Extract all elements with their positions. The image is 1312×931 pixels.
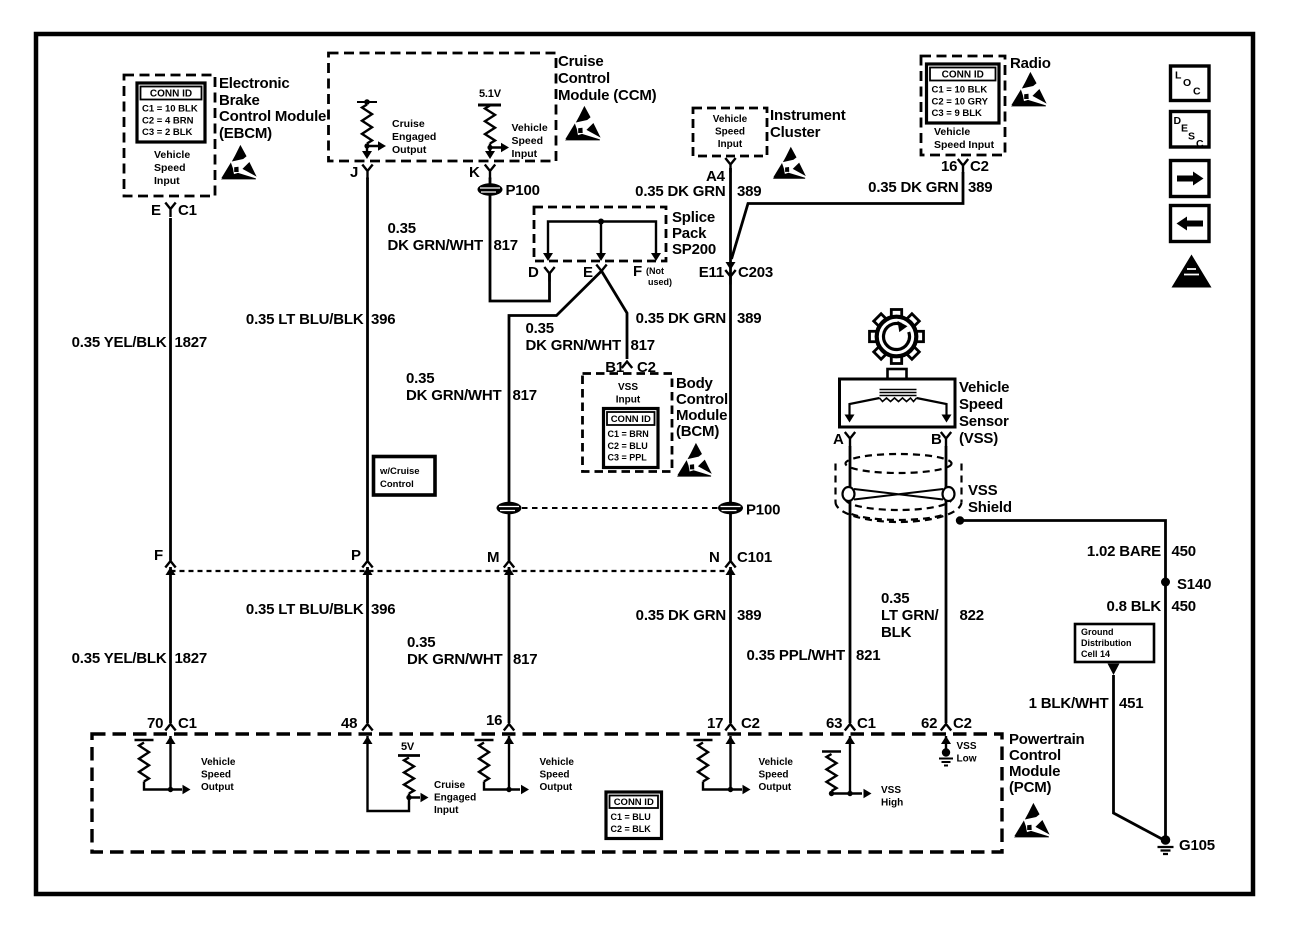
- svg-text:C: C: [1196, 138, 1204, 150]
- EBCM CONN ID table: [137, 83, 205, 142]
- label Cruise Engaged Input: [434, 780, 476, 816]
- shield drain junction: [956, 516, 964, 524]
- svg-text:Input: Input: [616, 395, 641, 406]
- svg-text:Speed: Speed: [959, 396, 1003, 413]
- svg-text:Control: Control: [1009, 747, 1061, 764]
- VSS shield dashed cylinder: [836, 454, 962, 522]
- svg-text:Output: Output: [540, 782, 573, 793]
- terminal P (C101): [351, 547, 373, 575]
- label 0.35 DK GRN 389 (below C203): [636, 310, 762, 327]
- svg-text:DK GRN/WHT: DK GRN/WHT: [388, 237, 484, 254]
- Ground Distribution Cell 14 box: [1075, 624, 1154, 662]
- svg-text:Body: Body: [676, 375, 714, 392]
- ground distribution pointer: [1108, 664, 1120, 676]
- svg-text:DK GRN/WHT: DK GRN/WHT: [526, 337, 622, 354]
- svg-text:(EBCM): (EBCM): [219, 125, 272, 142]
- BCM title: [676, 375, 728, 440]
- terminal F (C101): [154, 547, 176, 575]
- svg-text:C1: C1: [178, 715, 197, 732]
- svg-text:F: F: [633, 263, 642, 280]
- svg-text:450: 450: [1172, 543, 1196, 560]
- wire 817 splice E to M branch: [509, 271, 602, 561]
- connector row C101 dashed line: [171, 570, 731, 572]
- svg-text:P100: P100: [506, 182, 540, 199]
- svg-text:P100: P100: [746, 502, 780, 519]
- svg-text:C2: C2: [741, 715, 760, 732]
- svg-text:0.8 BLK: 0.8 BLK: [1107, 598, 1162, 615]
- svg-text:F: F: [154, 547, 163, 564]
- svg-text:C1 = 10 BLK: C1 = 10 BLK: [932, 85, 988, 96]
- label 0.35 PPL/WHT 821: [747, 647, 881, 664]
- svg-text:Input: Input: [154, 175, 180, 187]
- svg-text:1827: 1827: [175, 650, 208, 667]
- pin B (VSS): [931, 431, 951, 448]
- svg-text:C2 = BLK: C2 = BLK: [611, 824, 652, 834]
- svg-text:817: 817: [513, 387, 537, 404]
- BCM pin function label: [616, 382, 641, 406]
- label Vehicle Speed Input (CCM): [512, 122, 548, 160]
- svg-text:Input: Input: [434, 805, 459, 816]
- svg-text:450: 450: [1172, 598, 1196, 615]
- svg-text:389: 389: [737, 607, 761, 624]
- svg-text:E: E: [583, 264, 593, 281]
- pin 62 C2 (PCM): [921, 715, 972, 744]
- wire CCM cruise output branch: [362, 141, 386, 159]
- svg-text:0.35: 0.35: [407, 634, 435, 651]
- svg-text:389: 389: [737, 310, 761, 327]
- svg-text:E: E: [151, 202, 161, 219]
- svg-text:Speed: Speed: [715, 127, 745, 138]
- pin B1 C2 (BCM): [605, 359, 656, 376]
- svg-text:Control Module: Control Module: [219, 108, 326, 125]
- label Vehicle Speed Output 1: [201, 757, 236, 793]
- svg-text:16: 16: [486, 712, 502, 729]
- svg-text:0.35 DK GRN: 0.35 DK GRN: [636, 310, 726, 327]
- svg-text:Input: Input: [512, 148, 538, 160]
- Instrument Cluster title: [770, 107, 846, 141]
- svg-text:O: O: [1183, 77, 1191, 89]
- svg-text:C2: C2: [970, 158, 989, 175]
- svg-text:0.35 LT BLU/BLK: 0.35 LT BLU/BLK: [246, 601, 364, 618]
- svg-text:389: 389: [737, 183, 761, 200]
- wire 1827 EBCM E to C101 F: [169, 218, 172, 561]
- wire PCM cruise engaged input: [368, 736, 429, 811]
- svg-text:J: J: [350, 164, 358, 181]
- svg-text:Vehicle: Vehicle: [512, 122, 548, 134]
- svg-text:SP200: SP200: [672, 241, 716, 258]
- wire 389 IC A4 to C101 N: [729, 168, 732, 561]
- svg-text:C1: C1: [857, 715, 876, 732]
- svg-text:0.35: 0.35: [406, 370, 434, 387]
- svg-text:Control: Control: [676, 391, 728, 408]
- resistor vehicle speed output 3 (PCM): [694, 740, 713, 782]
- svg-text:0.35 YEL/BLK: 0.35 YEL/BLK: [72, 650, 167, 667]
- legend right-arrow icon: [1171, 161, 1210, 197]
- wire 396 CCM J to C101 P: [366, 178, 369, 561]
- svg-text:Cluster: Cluster: [770, 124, 821, 141]
- svg-text:Brake: Brake: [219, 92, 260, 109]
- pin 16 (PCM): [486, 712, 514, 744]
- legend LOC icon: [1171, 66, 1210, 101]
- svg-text:Speed: Speed: [540, 770, 570, 781]
- svg-text:5V: 5V: [401, 741, 415, 753]
- IC pin function label: [713, 114, 748, 150]
- svg-text:VSS: VSS: [957, 741, 977, 752]
- svg-text:DK GRN/WHT: DK GRN/WHT: [406, 387, 502, 404]
- label Vehicle Speed Output 2: [540, 757, 575, 793]
- svg-text:48: 48: [341, 715, 357, 732]
- pin J (CCM): [350, 164, 373, 181]
- svg-text:(PCM): (PCM): [1009, 779, 1052, 796]
- splice terminal D: [528, 253, 555, 282]
- wire 451 to G105: [1114, 675, 1163, 839]
- svg-text:Vehicle: Vehicle: [154, 149, 190, 161]
- label VSS Shield: [968, 482, 1012, 516]
- svg-text:(BCM): (BCM): [676, 423, 719, 440]
- legend OBD II triangle icon: [1172, 255, 1212, 289]
- svg-text:(Not: (Not: [646, 266, 664, 276]
- VSS title: [959, 379, 1009, 447]
- svg-text:5.1V: 5.1V: [479, 88, 502, 100]
- svg-text:Output: Output: [392, 144, 427, 156]
- legend left-arrow icon: [1171, 206, 1210, 242]
- VSS sensor body: [840, 369, 956, 427]
- svg-text:w/Cruise: w/Cruise: [379, 466, 420, 477]
- wire 821 VSS A to PCM 63: [849, 446, 852, 723]
- grommet P100 on N wire: [718, 502, 780, 519]
- svg-text:N: N: [709, 549, 720, 566]
- svg-text:0.35 YEL/BLK: 0.35 YEL/BLK: [72, 334, 167, 351]
- svg-text:C1 = 10 BLK: C1 = 10 BLK: [142, 104, 198, 115]
- svg-text:A: A: [833, 431, 844, 448]
- svg-text:62: 62: [921, 715, 937, 732]
- ground symbol VSS low: [939, 748, 953, 765]
- svg-text:C1 = BLU: C1 = BLU: [611, 812, 651, 822]
- splice pack SP200 box: [534, 207, 666, 261]
- label 0.35 LT BLU/BLK 396 lower: [246, 601, 396, 618]
- PCM title: [1009, 731, 1085, 796]
- wire 822 VSS B to PCM 62: [945, 446, 948, 723]
- label 0.35 DK GRN/WHT 817 (M wire upper): [406, 370, 537, 404]
- VSS gear icon: [870, 310, 924, 364]
- label 0.35 YEL/BLK 1827 upper: [72, 334, 207, 351]
- svg-text:LT GRN/: LT GRN/: [881, 607, 940, 624]
- label 0.35 DK GRN 389 (A4): [635, 183, 761, 200]
- svg-text:Vehicle: Vehicle: [201, 757, 236, 768]
- resistor vehicle speed output 1 (PCM): [135, 740, 154, 782]
- svg-text:Engaged: Engaged: [392, 131, 436, 143]
- svg-text:VSS: VSS: [881, 785, 901, 796]
- svg-text:CONN ID: CONN ID: [611, 414, 651, 425]
- svg-text:Control: Control: [380, 479, 414, 490]
- label Vehicle Speed Output 3: [759, 757, 794, 793]
- label 0.35 DK GRN/WHT 817 (M wire lower): [407, 634, 537, 668]
- svg-text:Engaged: Engaged: [434, 793, 476, 804]
- ESD symbol EBCM: [221, 145, 257, 179]
- svg-text:Speed: Speed: [759, 770, 789, 781]
- module Radio box: [921, 56, 1005, 155]
- svg-text:0.35: 0.35: [526, 320, 554, 337]
- wire PCM speed output 2: [484, 736, 529, 794]
- svg-text:C2 = 10 GRY: C2 = 10 GRY: [932, 96, 989, 107]
- svg-text:C2 = 4 BRN: C2 = 4 BRN: [142, 115, 194, 126]
- wire PCM VSS high: [829, 736, 872, 798]
- ESD symbol BCM: [677, 443, 712, 477]
- wire 817 CCM K to splice D: [490, 178, 550, 302]
- splice bus wire: [548, 219, 656, 254]
- svg-text:16: 16: [941, 158, 957, 175]
- label 1.02 BARE 450: [1087, 543, 1196, 560]
- ESD symbol PCM: [1014, 803, 1050, 837]
- svg-text:E: E: [1181, 123, 1188, 135]
- svg-text:0.35 LT BLU/BLK: 0.35 LT BLU/BLK: [246, 311, 364, 328]
- splice terminal F (not used): [633, 253, 672, 287]
- svg-text:C3 = PPL: C3 = PPL: [608, 453, 648, 463]
- module Instrument Cluster box: [693, 108, 767, 156]
- svg-text:Control: Control: [558, 70, 610, 87]
- svg-text:0.35 PPL/WHT: 0.35 PPL/WHT: [747, 647, 845, 664]
- resistor vehicle speed input (CCM): [478, 105, 501, 144]
- svg-text:Powertrain: Powertrain: [1009, 731, 1085, 748]
- svg-text:Low: Low: [957, 754, 977, 765]
- svg-text:Shield: Shield: [968, 499, 1012, 516]
- svg-text:Vehicle: Vehicle: [959, 379, 1009, 396]
- label 0.35 DK GRN 389 (radio): [868, 179, 992, 196]
- svg-text:Speed: Speed: [154, 162, 186, 174]
- resistor vehicle speed output 2 (PCM): [475, 740, 494, 782]
- EBCM title: [219, 75, 326, 142]
- svg-text:S140: S140: [1177, 576, 1211, 593]
- legend DESC icon: [1171, 112, 1210, 151]
- EBCM pin function label: [154, 149, 190, 187]
- svg-text:Module: Module: [676, 407, 727, 424]
- pin E C1 (EBCM): [151, 202, 197, 219]
- svg-text:817: 817: [631, 337, 655, 354]
- resistor cruise engaged input (PCM): [398, 756, 420, 794]
- grommet P100 on M wire: [497, 502, 522, 514]
- svg-text:817: 817: [494, 237, 518, 254]
- grommet P100 on K wire: [478, 182, 540, 199]
- svg-text:Vehicle: Vehicle: [934, 126, 970, 138]
- wire 450 shield to G105: [960, 521, 1166, 839]
- svg-text:Sensor: Sensor: [959, 413, 1009, 430]
- svg-text:Radio: Radio: [1010, 55, 1051, 72]
- wire 1827 C101 F to PCM 70: [169, 567, 172, 723]
- svg-text:OBD II: OBD II: [1182, 281, 1202, 288]
- svg-text:0.35 DK GRN: 0.35 DK GRN: [635, 183, 725, 200]
- svg-text:E11: E11: [699, 264, 724, 281]
- svg-text:Cruise: Cruise: [392, 118, 425, 130]
- svg-text:Instrument: Instrument: [770, 107, 846, 124]
- svg-text:17: 17: [707, 715, 723, 732]
- CCM title: [558, 53, 657, 104]
- wire 817 splice E to BCM B1: [602, 271, 628, 359]
- svg-text:BLK: BLK: [881, 624, 912, 641]
- svg-text:D: D: [528, 264, 539, 281]
- svg-text:C1: C1: [178, 202, 197, 219]
- PCM CONN ID table: [606, 792, 662, 839]
- svg-text:1 BLK/WHT: 1 BLK/WHT: [1029, 695, 1109, 712]
- pin K (CCM): [469, 164, 495, 181]
- svg-text:Splice: Splice: [672, 209, 715, 226]
- shield twisted pair symbol: [843, 487, 955, 501]
- svg-text:G105: G105: [1179, 837, 1215, 854]
- label 0.35 DK GRN/WHT 817 (K wire): [388, 220, 518, 254]
- Radio pin function label: [934, 126, 995, 151]
- wire CCM speed input branch: [485, 143, 509, 159]
- pin A4 (IC): [706, 158, 736, 185]
- pass-through dashed line P100: [522, 507, 718, 509]
- svg-text:DK GRN/WHT: DK GRN/WHT: [407, 651, 503, 668]
- svg-text:451: 451: [1119, 695, 1143, 712]
- svg-text:Vehicle: Vehicle: [713, 114, 748, 125]
- wire 389 C101 N to PCM 17: [729, 567, 732, 723]
- label VSS High: [881, 785, 903, 809]
- svg-text:High: High: [881, 798, 903, 809]
- label 0.35 LT BLU/BLK 396 upper: [246, 311, 396, 328]
- module BCM box: [583, 374, 673, 472]
- svg-text:C203: C203: [738, 264, 773, 281]
- svg-text:CONN ID: CONN ID: [614, 797, 654, 808]
- svg-text:(VSS): (VSS): [959, 430, 998, 447]
- svg-text:M: M: [487, 549, 499, 566]
- svg-text:Vehicle: Vehicle: [759, 757, 794, 768]
- wire 389 radio 16 C2 drop: [732, 172, 964, 259]
- svg-text:396: 396: [371, 601, 395, 618]
- module CCM box: [329, 53, 557, 161]
- pin A (VSS): [833, 431, 855, 448]
- svg-text:Vehicle: Vehicle: [540, 757, 575, 768]
- svg-text:Ground: Ground: [1081, 627, 1114, 637]
- ESD symbol Instrument Cluster: [773, 147, 806, 179]
- svg-text:CONN ID: CONN ID: [942, 70, 984, 81]
- svg-text:396: 396: [371, 311, 395, 328]
- svg-text:Speed: Speed: [512, 135, 544, 147]
- svg-text:1.02 BARE: 1.02 BARE: [1087, 543, 1161, 560]
- svg-text:K: K: [469, 164, 480, 181]
- svg-text:P: P: [351, 547, 361, 564]
- svg-text:821: 821: [856, 647, 880, 664]
- svg-text:C101: C101: [737, 549, 772, 566]
- svg-text:C1 = BRN: C1 = BRN: [608, 429, 649, 439]
- pin 63 C1 (PCM): [826, 715, 876, 744]
- svg-text:0.35: 0.35: [388, 220, 416, 237]
- label 0.8 BLK 450: [1107, 598, 1196, 615]
- splice pack title: [672, 209, 716, 258]
- svg-text:70: 70: [147, 715, 163, 732]
- module PCM box: [92, 734, 1002, 852]
- svg-text:Electronic: Electronic: [219, 75, 290, 92]
- label Cruise Engaged Output: [392, 118, 436, 156]
- svg-text:C2 = BLU: C2 = BLU: [608, 441, 648, 451]
- svg-text:822: 822: [960, 607, 984, 624]
- svg-text:C3 = 2 BLK: C3 = 2 BLK: [142, 127, 193, 138]
- pin 16 C2 (Radio): [941, 158, 989, 175]
- label 0.35 DK GRN/WHT 817 (BCM wire): [526, 320, 655, 354]
- wire PCM speed output 1: [144, 736, 191, 794]
- svg-text:C2: C2: [953, 715, 972, 732]
- svg-text:Input: Input: [718, 139, 743, 150]
- svg-text:Output: Output: [201, 782, 234, 793]
- terminal N (C101): [709, 549, 772, 575]
- svg-text:C: C: [1193, 86, 1201, 98]
- BCM CONN ID table: [604, 409, 659, 468]
- svg-text:0.35 DK GRN: 0.35 DK GRN: [636, 607, 726, 624]
- svg-text:Output: Output: [759, 782, 792, 793]
- svg-text:B: B: [931, 431, 942, 448]
- pin 17 C2 (PCM): [707, 715, 760, 744]
- wire 396 C101 P to PCM 48: [366, 567, 369, 723]
- terminal M (C101): [487, 549, 514, 575]
- svg-text:used): used): [648, 277, 672, 287]
- module EBCM box: [124, 75, 215, 196]
- svg-text:1827: 1827: [175, 334, 208, 351]
- svg-text:817: 817: [513, 651, 537, 668]
- w/Cruise Control tag box: [374, 457, 436, 496]
- svg-text:C3 = 9 BLK: C3 = 9 BLK: [932, 108, 983, 119]
- ground G105: [1158, 835, 1215, 854]
- svg-text:S: S: [1188, 131, 1195, 143]
- splice S140: [1161, 576, 1211, 593]
- splice terminal E: [583, 253, 607, 281]
- label 1 BLK/WHT 451: [1029, 695, 1144, 712]
- svg-text:0.35 DK GRN: 0.35 DK GRN: [868, 179, 958, 196]
- svg-text:Cruise: Cruise: [558, 53, 604, 70]
- svg-text:0.35: 0.35: [881, 590, 909, 607]
- Radio CONN ID table: [927, 64, 1000, 123]
- pin 70 C1 (PCM): [147, 715, 197, 744]
- svg-text:Cruise: Cruise: [434, 780, 466, 791]
- label VSS Low: [957, 741, 977, 765]
- svg-text:Module (CCM): Module (CCM): [558, 87, 657, 104]
- ESD symbol CCM: [565, 106, 601, 140]
- resistor cruise engaged (CCM): [357, 99, 377, 143]
- svg-text:Speed: Speed: [201, 770, 231, 781]
- resistor VSS high (PCM): [822, 752, 841, 791]
- svg-text:Distribution: Distribution: [1081, 638, 1132, 648]
- svg-text:VSS: VSS: [968, 482, 998, 499]
- svg-text:CONN ID: CONN ID: [150, 89, 192, 100]
- svg-text:Speed Input: Speed Input: [934, 139, 995, 151]
- wire PCM speed output 3: [703, 736, 751, 794]
- svg-text:Cell 14: Cell 14: [1081, 649, 1110, 659]
- svg-text:389: 389: [968, 179, 992, 196]
- svg-text:63: 63: [826, 715, 842, 732]
- svg-text:Module: Module: [1009, 763, 1060, 780]
- wire PCM VSS low: [945, 736, 947, 749]
- pin 48 (PCM): [341, 715, 373, 744]
- svg-text:L: L: [1175, 70, 1182, 82]
- wire 817 C101 M to PCM 16: [508, 567, 511, 723]
- connector E11 C203: [699, 262, 773, 285]
- label 0.35 DK GRN 389 lower: [636, 607, 762, 624]
- svg-text:VSS: VSS: [618, 382, 638, 393]
- label 0.35 YEL/BLK 1827 lower: [72, 650, 207, 667]
- svg-text:Pack: Pack: [672, 225, 707, 242]
- label 0.35 LT GRN/BLK 822: [881, 590, 984, 641]
- ESD symbol Radio: [1011, 72, 1047, 106]
